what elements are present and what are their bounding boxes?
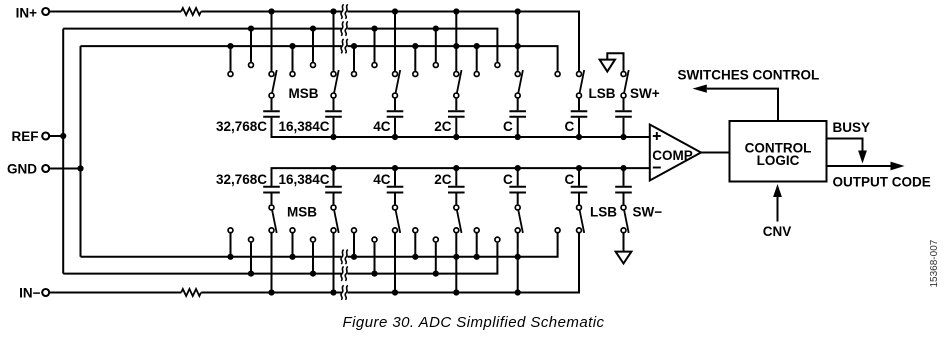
node bottom bus junction LSB	[576, 165, 582, 171]
switch pole bit1 (top)	[454, 93, 459, 98]
wire pole to capacitor bit2 (bottom)	[394, 194, 396, 205]
wire REF contact stub MSB (top)	[250, 29, 252, 62]
wire IN− rail left of break	[201, 292, 341, 294]
node bottom bus junction bit0b	[515, 165, 521, 171]
switch contact GND bit0b (bottom)	[474, 228, 479, 233]
comparator + input sign	[653, 135, 661, 137]
node IN− rail junction bit14 (bottom)	[330, 289, 336, 295]
node GND rail crossing bit0b (top)	[515, 43, 521, 49]
wire GND contact stub bit1 (top)	[414, 46, 416, 71]
resistor R-IN−	[181, 289, 201, 296]
node IN− rail junction bit2 (bottom)	[392, 289, 398, 295]
wire REF contact stub bit2 (bottom)	[374, 243, 376, 274]
node REF junction	[60, 133, 66, 139]
svg-text:4C: 4C	[373, 172, 391, 187]
switch arm SW−	[624, 210, 629, 233]
resistor R-IN+	[181, 8, 201, 15]
wire GND bottom rail left of break	[81, 256, 342, 258]
wire capacitor to bus bit2 (bottom)	[394, 168, 396, 186]
switch pole bit2 (bottom)	[393, 205, 398, 210]
common-mode symbol (open triangle) SW+	[600, 60, 615, 72]
break mark on REF top rail	[341, 21, 344, 35]
wire IN+ rail right of break, turns down to LSB switch contact	[348, 12, 580, 71]
wire GND contact stub bit0b (top)	[476, 46, 478, 71]
switch contact REF MSB (bottom)	[249, 237, 254, 242]
svg-text:LOGIC: LOGIC	[757, 153, 800, 168]
svg-text:16,384C: 16,384C	[278, 119, 329, 134]
svg-text:15368-007: 15368-007	[929, 239, 940, 287]
switch contact REF bit1 (bottom)	[433, 237, 438, 242]
capacitor SW+ sampling cap	[615, 110, 632, 112]
wire IN− contact stub bit14 (bottom)	[333, 233, 335, 292]
comparator − input sign	[653, 167, 661, 169]
switch contact IN+ bit14 (top)	[331, 72, 336, 77]
svg-text:REF: REF	[12, 129, 39, 144]
wire GND terminal to vertical	[49, 168, 80, 170]
wire pole to capacitor bit1 (bottom)	[455, 194, 457, 205]
switch contact REF bit0b (top)	[495, 63, 500, 68]
wire REF top rail right of break, turns down to C-cell middle contact	[348, 29, 498, 62]
node GND rail junction bit2 (bottom)	[351, 254, 357, 260]
switch contact IN− bit14 (bottom)	[331, 228, 336, 233]
wire capacitor to bus bit0b (top)	[517, 118, 519, 137]
svg-text:OUTPUT CODE: OUTPUT CODE	[833, 174, 931, 189]
arrowhead switches control	[693, 85, 707, 93]
wire top DAC bus to comparator +	[272, 118, 650, 137]
node IN+ rail junction MSB (top)	[268, 8, 274, 14]
capacitor 16,384C (bottom)	[325, 186, 342, 188]
svg-text:IN+: IN+	[16, 5, 38, 20]
wire SW+ hook	[607, 53, 623, 71]
wire IN− terminal to resistor	[49, 292, 181, 294]
terminal REF	[42, 133, 49, 140]
switch pole LSB (bottom)	[577, 205, 582, 210]
switch arm bit0b (bottom)	[518, 210, 523, 233]
wire IN+ terminal to resistor	[49, 11, 181, 13]
switch contact GND LSB (top)	[555, 72, 560, 77]
switch arm bit14 (bottom)	[334, 210, 339, 233]
switch pole bit1 (bottom)	[454, 205, 459, 210]
wire capacitor to bus SW−	[623, 168, 625, 186]
terminal IN+	[42, 8, 49, 15]
wire REF contact stub bit14 (top)	[312, 29, 314, 62]
switch contact GND MSB (bottom)	[228, 228, 233, 233]
svg-text:LSB: LSB	[589, 86, 616, 101]
switch arm bit0b (top)	[518, 70, 523, 93]
node IN+ rail junction bit2 (top)	[392, 8, 398, 14]
break mark on GND bottom rail	[341, 250, 344, 264]
wire GND contact stub MSB (bottom)	[230, 233, 232, 256]
node GND rail junction MSB (top)	[227, 43, 233, 49]
wire GND contact stub bit1 (bottom)	[414, 233, 416, 256]
wire IN− contact stub bit0b (bottom)	[517, 233, 519, 292]
wire capacitor to bus MSB (top)	[271, 118, 273, 137]
svg-text:CNV: CNV	[763, 224, 792, 239]
node REF rail junction bit2 (bottom)	[371, 271, 377, 277]
switch contact GND bit0b (top)	[474, 72, 479, 77]
wire pole to capacitor MSB (bottom)	[271, 194, 273, 205]
switch pole LSB (top)	[577, 93, 582, 98]
wire capacitor to bus bit14 (bottom)	[333, 168, 335, 186]
node top bus junction LSB	[576, 134, 582, 140]
switch contact REF MSB (top)	[249, 63, 254, 68]
node REF rail junction bit14 (top)	[310, 26, 316, 32]
arrowhead BUSY	[858, 151, 867, 164]
wire GND vertical	[80, 46, 82, 257]
wire pole to capacitor bit14 (top)	[333, 99, 335, 111]
svg-text:SWITCHES CONTROL: SWITCHES CONTROL	[678, 67, 820, 82]
switch contact REF bit2 (bottom)	[372, 237, 377, 242]
svg-text:GND: GND	[7, 162, 37, 177]
switch contact IN− LSB (bottom)	[577, 228, 582, 233]
wire pole to capacitor bit2 (top)	[394, 99, 396, 111]
switch contact IN− bit0b (bottom)	[515, 228, 520, 233]
switch arm MSB (bottom)	[272, 210, 277, 233]
switch contact GND bit14 (bottom)	[290, 228, 295, 233]
capacitor C (bottom)	[571, 186, 588, 188]
switch pole SW+	[621, 93, 626, 98]
wire pole to capacitor bit0b (bottom)	[517, 194, 519, 205]
wire GND contact stub bit0b (bottom)	[476, 233, 478, 256]
break mark on IN− rail	[341, 285, 344, 299]
switch contact REF bit14 (bottom)	[311, 237, 316, 242]
svg-text:LSB: LSB	[590, 205, 617, 220]
wire IN+ contact stub bit0b (top)	[517, 12, 519, 71]
switch contact SW+	[621, 72, 626, 77]
wire REF contact stub MSB (bottom)	[250, 243, 252, 274]
switch contact GND MSB (top)	[228, 72, 233, 77]
node IN− rail junction MSB (bottom)	[268, 289, 274, 295]
wire capacitor to bus bit1 (top)	[455, 118, 457, 137]
wire REF contact stub bit1 (bottom)	[435, 243, 437, 274]
wire pole to capacitor bit0b (top)	[517, 99, 519, 111]
wire GND contact stub bit14 (top)	[292, 46, 294, 71]
node top bus junction bit0b	[515, 134, 521, 140]
node bottom bus junction bit2	[392, 165, 398, 171]
node GND rail junction bit1 (bottom)	[412, 254, 418, 260]
node GND rail crossing bit1 (top)	[453, 43, 459, 49]
wire switches control	[707, 89, 778, 121]
node IN+ rail junction bit14 (top)	[330, 8, 336, 14]
switch contact GND bit14 (top)	[290, 72, 295, 77]
common-mode symbol (open triangle) SW−	[616, 252, 632, 264]
svg-text:32,768C: 32,768C	[216, 119, 267, 134]
svg-text:C: C	[564, 119, 574, 134]
switch pole SW−	[621, 205, 626, 210]
wire REF bottom rail right of break, turns up to C-cell middle contact	[348, 243, 498, 274]
wire REF contact stub bit14 (bottom)	[312, 243, 314, 274]
node GND rail junction bit0b (bottom)	[474, 254, 480, 260]
node IN− rail junction bit0b (bottom)	[515, 289, 521, 295]
node GND rail junction bit2 (top)	[351, 43, 357, 49]
svg-text:4C: 4C	[373, 119, 391, 134]
node REF rail junction bit2 (top)	[371, 26, 377, 32]
wire pole to capacitor MSB (top)	[271, 99, 273, 111]
wire REF bottom rail left of break	[63, 273, 341, 275]
node REF rail junction MSB (top)	[248, 26, 254, 32]
wire IN− contact stub bit1 (bottom)	[455, 233, 457, 292]
break mark on GND top rail	[341, 39, 344, 53]
wire REF contact stub bit1 (top)	[435, 29, 437, 62]
wire comparator output	[701, 152, 730, 154]
svg-text:C: C	[564, 172, 574, 187]
wire GND top rail right of break, turns down to LSB middle contact	[348, 46, 558, 71]
wire IN− contact stub MSB (bottom)	[271, 233, 273, 292]
switch contact IN+ LSB (top)	[577, 72, 582, 77]
control logic block U1	[730, 121, 827, 182]
wire pole to capacitor bit1 (top)	[455, 99, 457, 111]
svg-text:SW−: SW−	[633, 205, 663, 220]
wire IN− rail right of break, turns up to LSB switch contact	[348, 233, 580, 292]
node GND rail junction bit14 (top)	[289, 43, 295, 49]
switch contact IN− bit1 (bottom)	[454, 228, 459, 233]
node REF rail junction bit14 (bottom)	[310, 271, 316, 277]
node bottom bus junction SW−	[620, 165, 626, 171]
switch contact REF bit0b (bottom)	[495, 237, 500, 242]
wire capacitor to bus bit0b (bottom)	[517, 168, 519, 186]
wire IN+ rail left of break	[201, 11, 341, 13]
wire capacitor to bus bit1 (bottom)	[455, 168, 457, 186]
wire IN+ contact stub bit14 (top)	[333, 12, 335, 71]
switch arm LSB (bottom)	[580, 210, 585, 233]
break mark on REF bottom rail	[341, 266, 344, 280]
wire GND contact stub MSB (top)	[230, 46, 232, 71]
switch arm bit1 (bottom)	[457, 210, 462, 233]
node GND rail junction bit0b (top)	[474, 43, 480, 49]
switch pole MSB (bottom)	[269, 205, 274, 210]
switch contact IN+ bit2 (top)	[393, 72, 398, 77]
node GND rail junction bit1 (top)	[412, 43, 418, 49]
svg-text:Figure 30. ADC Simplified Sche: Figure 30. ADC Simplified Schematic	[343, 314, 605, 331]
wire IN+ contact stub bit1 (top)	[455, 12, 457, 71]
node top bus junction bit2	[392, 134, 398, 140]
wire CNV	[777, 197, 779, 222]
node IN+ rail junction bit1 (top)	[453, 8, 459, 14]
wire capacitor to bus bit2 (top)	[394, 118, 396, 137]
switch contact GND bit2 (top)	[352, 72, 357, 77]
switch pole bit0b (top)	[515, 93, 520, 98]
switch contact GND bit1 (bottom)	[413, 228, 418, 233]
wire pole to capacitor SW+	[623, 99, 625, 111]
switch contact GND bit2 (bottom)	[352, 228, 357, 233]
node REF rail junction bit1 (bottom)	[433, 271, 439, 277]
switch arm MSB (top)	[272, 70, 277, 93]
svg-text:2C: 2C	[434, 172, 452, 187]
switch contact IN+ bit0b (top)	[515, 72, 520, 77]
wire REF top rail left of break	[63, 28, 341, 30]
wire pole to capacitor LSB (top)	[578, 99, 580, 111]
wire IN+ contact stub bit2 (top)	[394, 12, 396, 71]
switch contact GND bit1 (top)	[413, 72, 418, 77]
switch contact IN− MSB (bottom)	[269, 228, 274, 233]
wire GND contact stub bit14 (bottom)	[292, 233, 294, 256]
node IN+ rail junction bit0b (top)	[515, 8, 521, 14]
node GND junction	[77, 165, 83, 171]
switch pole bit2 (top)	[393, 93, 398, 98]
arrowhead OUTPUT CODE	[891, 162, 905, 171]
node top bus junction SW+	[620, 134, 626, 140]
capacitor 2C (top)	[448, 110, 465, 112]
wire pole to capacitor LSB (bottom)	[578, 194, 580, 205]
terminal IN−	[42, 289, 49, 296]
wire capacitor to bus LSB (top)	[578, 118, 580, 137]
switch contact IN− bit2 (bottom)	[393, 228, 398, 233]
switch contact IN+ MSB (top)	[269, 72, 274, 77]
capacitor SW− sampling cap	[615, 186, 632, 188]
node bottom bus junction bit14	[330, 165, 336, 171]
switch pole MSB (top)	[269, 93, 274, 98]
switch pole bit14 (top)	[331, 93, 336, 98]
node IN− rail junction bit1 (bottom)	[453, 289, 459, 295]
wire capacitor to bus SW+	[623, 118, 625, 137]
node GND rail junction MSB (bottom)	[227, 254, 233, 260]
wire GND contact stub bit2 (top)	[353, 46, 355, 71]
switch contact REF bit14 (top)	[311, 63, 316, 68]
wire GND top rail left of break	[81, 45, 342, 47]
capacitor C (top)	[509, 110, 526, 112]
svg-text:2C: 2C	[434, 119, 452, 134]
switch contact REF bit2 (top)	[372, 63, 377, 68]
switch arm bit2 (top)	[396, 70, 401, 93]
arrowhead CNV	[773, 184, 782, 197]
capacitor 32,768C (top)	[263, 110, 280, 112]
wire REF contact stub bit2 (top)	[374, 29, 376, 62]
switch pole bit14 (bottom)	[331, 205, 336, 210]
wire OUTPUT CODE	[827, 165, 892, 167]
wire pole to capacitor SW−	[623, 194, 625, 205]
svg-text:C: C	[503, 119, 513, 134]
wire IN+ contact stub MSB (top)	[271, 12, 273, 71]
wire GND contact stub bit2 (bottom)	[353, 233, 355, 256]
capacitor 4C (top)	[387, 110, 404, 112]
node REF rail junction bit1 (top)	[433, 26, 439, 32]
switch arm LSB (top)	[580, 70, 585, 93]
wire REF vertical	[62, 29, 64, 274]
switch arm bit1 (top)	[457, 70, 462, 93]
svg-text:SW+: SW+	[630, 86, 660, 101]
switch arm bit2 (bottom)	[396, 210, 401, 233]
wire capacitor to bus bit14 (top)	[333, 118, 335, 137]
wire BUSY	[827, 139, 863, 152]
node GND rail crossing bit0b (bottom)	[515, 254, 521, 260]
op-amp COMP comparator triangle	[650, 125, 701, 181]
node GND rail crossing bit1 (bottom)	[453, 254, 459, 260]
capacitor C (bottom)	[509, 186, 526, 188]
node top bus junction bit1	[453, 134, 459, 140]
svg-text:MSB: MSB	[287, 205, 317, 220]
wire bottom DAC bus to comparator −	[272, 168, 650, 186]
switch arm SW+	[624, 70, 629, 93]
svg-text:32,768C: 32,768C	[216, 172, 267, 187]
capacitor 16,384C (top)	[325, 110, 342, 112]
svg-text:C: C	[503, 172, 513, 187]
node bottom bus junction bit1	[453, 165, 459, 171]
terminal GND	[42, 165, 49, 172]
capacitor 4C (bottom)	[387, 186, 404, 188]
capacitor 32,768C (bottom)	[263, 186, 280, 188]
node GND rail junction bit14 (bottom)	[289, 254, 295, 260]
break mark on IN+ rail	[341, 4, 344, 18]
node top bus junction bit14	[330, 134, 336, 140]
wire IN− contact stub bit2 (bottom)	[394, 233, 396, 292]
wire capacitor to bus LSB (bottom)	[578, 168, 580, 186]
svg-text:MSB: MSB	[289, 86, 319, 101]
switch contact IN+ bit1 (top)	[454, 72, 459, 77]
switch contact SW−	[621, 228, 626, 233]
wire pole to capacitor bit14 (bottom)	[333, 194, 335, 205]
wire SW− to common symbol	[623, 233, 625, 251]
svg-text:COMP: COMP	[652, 148, 693, 163]
switch contact GND LSB (bottom)	[555, 228, 560, 233]
capacitor C (top)	[571, 110, 588, 112]
svg-text:BUSY: BUSY	[833, 120, 871, 135]
switch contact REF bit1 (top)	[433, 63, 438, 68]
svg-text:IN−: IN−	[19, 286, 41, 301]
wire capacitor to bus MSB (bottom)	[271, 168, 273, 186]
capacitor 2C (bottom)	[448, 186, 465, 188]
wire REF terminal to vertical	[49, 135, 63, 137]
switch arm bit14 (top)	[334, 70, 339, 93]
svg-text:16,384C: 16,384C	[278, 172, 329, 187]
wire GND bottom rail right of break, turns up to LSB middle contact	[348, 233, 558, 256]
switch pole bit0b (bottom)	[515, 205, 520, 210]
node REF rail junction MSB (bottom)	[248, 271, 254, 277]
